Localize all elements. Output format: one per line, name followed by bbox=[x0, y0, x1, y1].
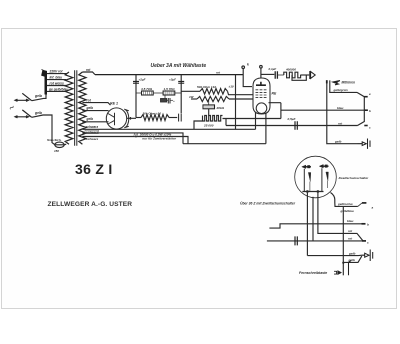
filter drop wire V2 bbox=[180, 75, 182, 114]
tap gelb to rectifier upper bbox=[82, 106, 108, 111]
choke box B3 bbox=[160, 95, 168, 102]
anode terminal bbox=[260, 66, 263, 79]
svg-text:Smp.Sich.: Smp.Sich. bbox=[47, 138, 62, 142]
switch blade upper bbox=[22, 93, 31, 100]
svg-text:Zweifachumschalter: Zweifachumschalter bbox=[338, 176, 370, 180]
wire 50k to grid bbox=[228, 91, 254, 94]
svg-text:RE: RE bbox=[272, 92, 277, 96]
telegraph key Fernschreibtaste bbox=[299, 260, 351, 275]
svg-text:gelb: gelb bbox=[348, 251, 355, 255]
wire rail to tube V3 bbox=[235, 75, 237, 130]
svg-text:0,1µF: 0,1µF bbox=[269, 67, 277, 71]
capacitor C3 small bbox=[168, 98, 175, 104]
filter drop wire V1 bbox=[135, 75, 137, 118]
svg-text:ZELLWEGER A.-G. USTER: ZELLWEGER A.-G. USTER bbox=[48, 201, 133, 208]
resistor 50k R3 bbox=[181, 85, 234, 95]
wire comb right junction bbox=[223, 119, 227, 126]
transformer core bbox=[75, 70, 77, 145]
wire tube right to blau row bbox=[226, 103, 281, 119]
svg-text:gelb: gelb bbox=[86, 117, 94, 121]
wire rectifier output bbox=[127, 117, 136, 120]
tap schwarz rail C bbox=[82, 137, 188, 144]
row a pin bbox=[358, 203, 374, 210]
svg-text:25 000: 25 000 bbox=[203, 123, 214, 127]
svg-text:1,5 70Ω: 1,5 70Ω bbox=[164, 87, 176, 91]
svg-text:b: b bbox=[369, 109, 371, 113]
svg-text:nur für Zweitverstärker: nur für Zweitverstärker bbox=[142, 137, 176, 141]
wire circle to row a bbox=[331, 193, 358, 207]
chassis ground lower bbox=[362, 250, 373, 262]
note circled: 20k only for second amplifier bbox=[134, 132, 177, 140]
transformer secondary winding bbox=[79, 72, 86, 144]
svg-text:blau: blau bbox=[337, 106, 343, 110]
svg-text:c: c bbox=[367, 240, 369, 244]
capacitor 0.5uF on rot row bbox=[288, 117, 298, 130]
svg-text:4,5 70Ω: 4,5 70Ω bbox=[140, 87, 153, 91]
svg-text:50k Ohm ±10: 50k Ohm ±10 bbox=[197, 85, 216, 89]
svg-text:400000: 400000 bbox=[285, 68, 296, 72]
tap schwarz rail B bbox=[82, 130, 183, 144]
svg-text:b: b bbox=[367, 223, 369, 227]
resistor 70 ohm R2 (boxed) bbox=[163, 87, 181, 95]
heater return rail D bbox=[183, 143, 266, 145]
wire comb left to rail bbox=[194, 121, 203, 129]
svg-text:20kΩ: 20kΩ bbox=[216, 106, 225, 110]
wire circle to upper rot row bbox=[318, 193, 363, 241]
svg-text:Mithören: Mithören bbox=[342, 81, 356, 85]
capacitor on row c bbox=[295, 236, 297, 245]
svg-text:gelb: gelb bbox=[34, 111, 42, 115]
chassis ground upper bbox=[358, 139, 371, 149]
svg-text:+: + bbox=[173, 99, 175, 103]
cathode wire right bbox=[265, 113, 267, 144]
monitor jack wire Vc1 bbox=[327, 80, 358, 143]
tap weiss bbox=[47, 82, 66, 86]
wire to output arrow bbox=[300, 74, 309, 76]
svg-text:gelb/schw.: gelb/schw. bbox=[337, 202, 353, 206]
jack contact left in circle bbox=[302, 165, 311, 191]
wire upper switch to selector bbox=[32, 93, 46, 100]
rectifier tube RE1 bbox=[106, 102, 129, 130]
svg-text:Über 36 Z mit Zweifachumschalt: Über 36 Z mit Zweifachumschalter bbox=[240, 201, 296, 206]
monitor jack contacts bbox=[326, 80, 340, 85]
jack contact right in circle bbox=[319, 165, 328, 192]
pin e bbox=[364, 92, 371, 97]
svg-text:0,5µF: 0,5µF bbox=[288, 117, 296, 121]
svg-text:gelb: gelb bbox=[334, 140, 341, 144]
svg-text:RE 1: RE 1 bbox=[110, 102, 118, 106]
svg-text:gelb/blau: gelb/blau bbox=[340, 209, 354, 213]
svg-text:rot weiss: rot weiss bbox=[50, 82, 64, 86]
wire fuse to transformer bbox=[64, 143, 66, 146]
svg-text:+2µF: +2µF bbox=[169, 78, 176, 82]
wire lower switch to fuse bbox=[32, 115, 55, 145]
capacitor C4 at 30k bbox=[179, 114, 182, 122]
tap 220V rot bbox=[47, 70, 67, 74]
tap rot to rectifier bbox=[82, 98, 110, 105]
row c wire bbox=[267, 229, 369, 244]
svg-text:gelb: gelb bbox=[34, 94, 42, 98]
row b wire bbox=[269, 219, 369, 228]
svg-text:gelb: gelb bbox=[86, 106, 94, 110]
ground row wires bbox=[307, 251, 362, 262]
tapped resistor 25000 ohm bbox=[203, 109, 223, 128]
svg-text:Ueber 3A mit Wähltaste: Ueber 3A mit Wähltaste bbox=[151, 63, 207, 69]
svg-text:+2µF: +2µF bbox=[139, 78, 146, 82]
blau row to pin b upper bbox=[281, 106, 358, 110]
svg-text:a: a bbox=[372, 206, 374, 210]
resistor R4 row2 bbox=[189, 95, 253, 102]
switch blade lower bbox=[22, 110, 31, 117]
tap gelb to rectifier lower bbox=[82, 117, 108, 122]
mains plug contact upper bbox=[15, 99, 29, 101]
upper connector bracket bbox=[357, 92, 365, 125]
contact bridge in circle bbox=[302, 191, 323, 193]
output tube RE bbox=[253, 78, 277, 114]
capacitor 2uF C1 bbox=[133, 78, 146, 84]
output arrow bbox=[310, 71, 315, 79]
resistor 20k R5 (boxed) bbox=[203, 99, 225, 110]
wire circle to ground row bbox=[306, 193, 308, 256]
svg-text:±10: ±10 bbox=[229, 85, 234, 89]
tap gelb/blau bbox=[47, 88, 68, 92]
svg-text:gelb/grün: gelb/grün bbox=[333, 88, 348, 92]
wire anode to coupling cap bbox=[261, 73, 274, 75]
svg-text:150: 150 bbox=[54, 149, 59, 153]
capacitor 2uF C2 bbox=[169, 78, 184, 84]
svg-text:36 Z I: 36 Z I bbox=[75, 161, 113, 177]
resistor 400k square bbox=[284, 68, 301, 78]
svg-text:schwarz: schwarz bbox=[86, 137, 99, 141]
tap rot to HT rail bbox=[82, 68, 95, 75]
B+ rail bbox=[95, 70, 243, 74]
grid cap terminal bbox=[242, 66, 252, 87]
resistor 70 ohm R1 (boxed) bbox=[136, 87, 163, 95]
cathode wire left bbox=[255, 113, 257, 130]
mains plug contact lower bbox=[15, 116, 29, 118]
pin c upper bbox=[364, 126, 371, 130]
svg-text:220V rot: 220V rot bbox=[49, 70, 64, 74]
pin b upper bbox=[365, 109, 372, 113]
vertical wire VA bbox=[342, 206, 344, 275]
svg-text:Fernschreibtaste: Fernschreibtaste bbox=[299, 271, 327, 275]
detail circle Zweifachumschalter bbox=[295, 156, 337, 198]
capacitor 0.1uF coupling bbox=[269, 67, 284, 79]
svg-text:Inf. blau: Inf. blau bbox=[50, 76, 63, 80]
tap blau bbox=[47, 76, 66, 80]
transformer primary winding bbox=[65, 72, 73, 144]
monitor jack wire Vc2 bbox=[330, 80, 357, 92]
svg-text:blau: blau bbox=[347, 219, 353, 223]
svg-text:30k Ohm ±10: 30k Ohm ±10 bbox=[143, 112, 162, 116]
voltage selector bar bbox=[42, 70, 48, 95]
rot row to pin c upper bbox=[226, 121, 358, 125]
tap schwarz rail A bbox=[82, 125, 255, 129]
fuse bbox=[47, 138, 64, 153]
wire resistor bypass loop bbox=[292, 75, 306, 80]
svg-text:gelb: gelb bbox=[348, 258, 355, 262]
wire circle to lower rot row c bbox=[312, 197, 314, 241]
svg-text:schwarz: schwarz bbox=[86, 130, 99, 134]
svg-text:schwarz: schwarz bbox=[86, 125, 99, 129]
resistor 30k R6 bbox=[136, 112, 177, 121]
